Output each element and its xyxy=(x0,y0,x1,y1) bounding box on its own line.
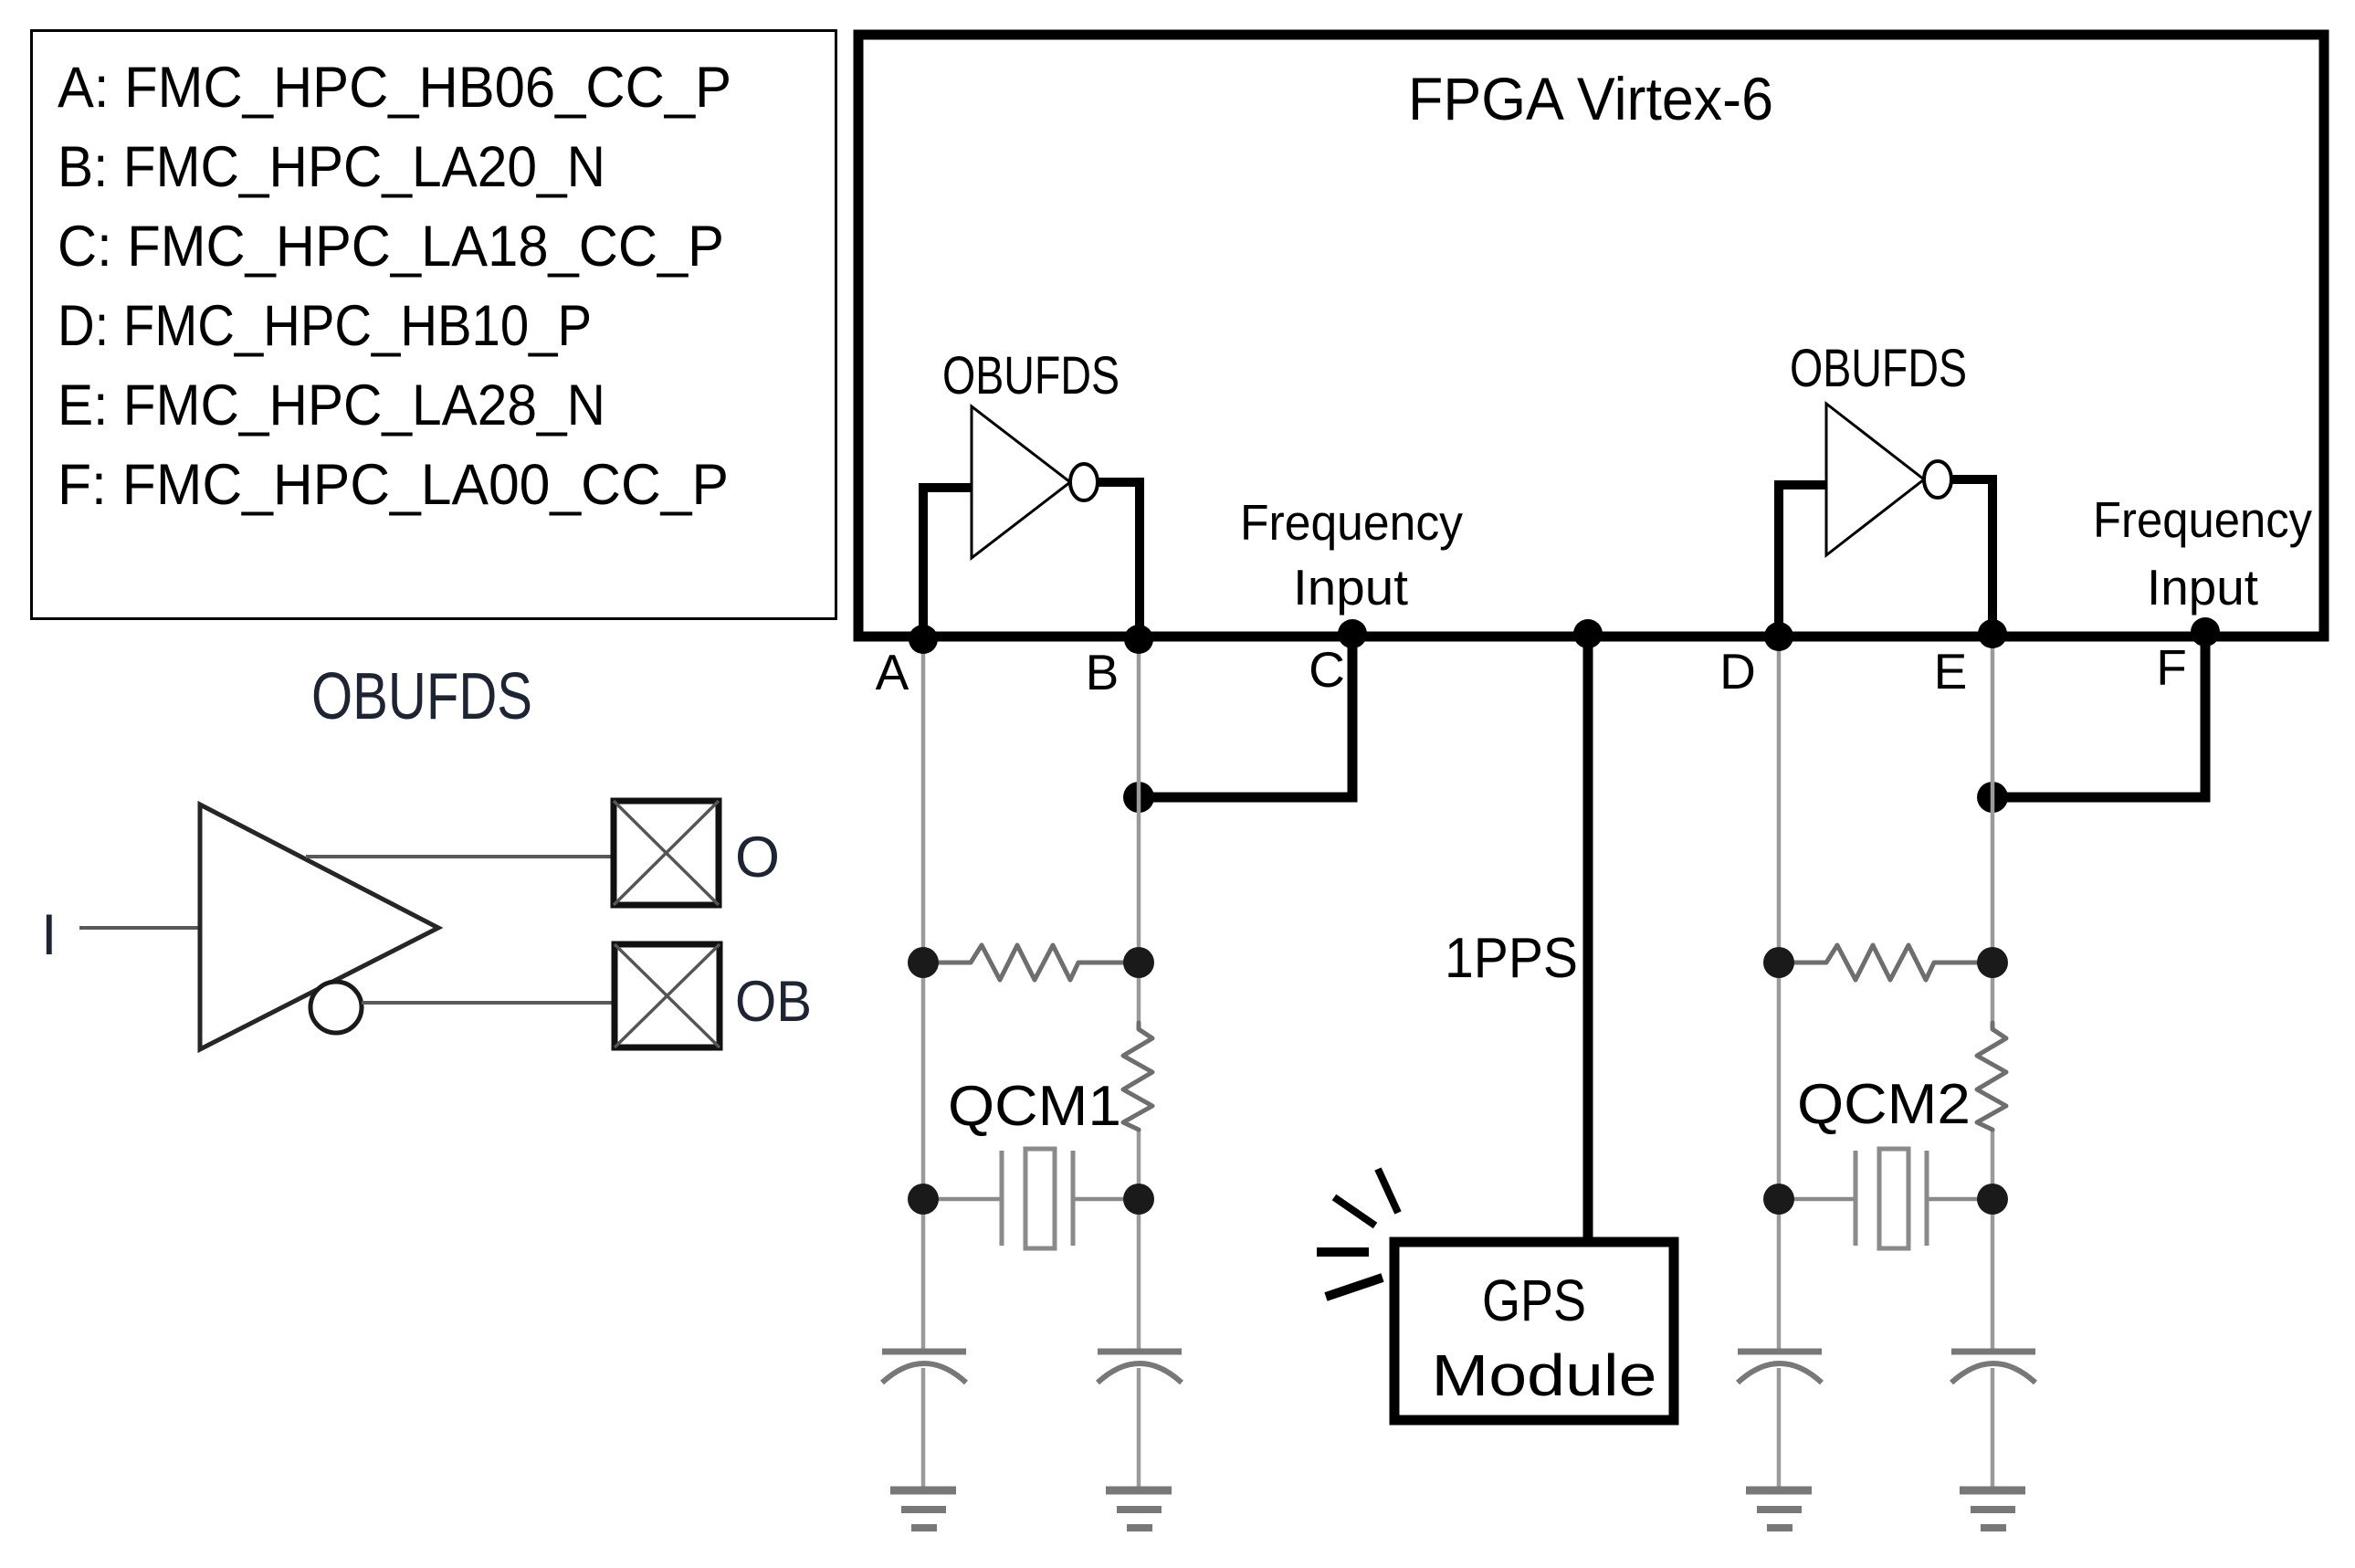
ground (wire A) xyxy=(890,1490,956,1528)
GPS Module box U4 xyxy=(1394,1242,1674,1420)
svg-text:A: FMC_HPC_HB06_CC_P: A: FMC_HPC_HB06_CC_P xyxy=(58,56,731,120)
pad box OB xyxy=(615,944,720,1047)
svg-text:I: I xyxy=(41,903,58,967)
junction dot resistor R1 right xyxy=(1123,947,1154,978)
resistor R4 (vertical, QCM2) xyxy=(1977,1023,2006,1130)
wire B vertical (lower) xyxy=(1137,1368,1141,1490)
node B xyxy=(1124,625,1153,654)
svg-text:FPGA Virtex-6: FPGA Virtex-6 xyxy=(1408,65,1773,132)
legend box (signal name table) xyxy=(32,31,836,619)
spark mark 1 (steep) xyxy=(1378,1169,1398,1213)
junction dot on wire B at jog xyxy=(1123,782,1154,813)
svg-text:F: FMC_HPC_LA00_CC_P: F: FMC_HPC_LA00_CC_P xyxy=(58,453,729,517)
svg-text:Input: Input xyxy=(1293,559,1408,616)
svg-text:C: C xyxy=(1309,641,1345,698)
node E xyxy=(1978,619,2007,648)
junction dot resistor R3 right xyxy=(1977,947,2008,978)
node A xyxy=(909,625,938,654)
node D xyxy=(1764,622,1793,651)
wire O output xyxy=(306,855,614,858)
ground (wire E) xyxy=(1960,1490,2025,1528)
junction dot crystal X1 left xyxy=(908,1184,939,1215)
svg-text:F: F xyxy=(2156,639,2187,696)
junction dot crystal X2 right xyxy=(1977,1184,2008,1215)
junction dot crystal X2 left xyxy=(1763,1184,1794,1215)
resistor R2 (vertical, QCM1) xyxy=(1123,1023,1152,1130)
spark mark 2 (diagonal) xyxy=(1334,1197,1375,1226)
wire E vertical (mid) xyxy=(1991,1129,1995,1349)
svg-text:O: O xyxy=(735,826,780,889)
svg-text:Frequency: Frequency xyxy=(2093,491,2312,548)
crystal X2 (QCM2) xyxy=(1779,1149,1992,1248)
wire D vertical (upper) xyxy=(1777,639,1782,1349)
capacitor C2 (on wire B) xyxy=(1098,1352,1182,1383)
op-amp triangle OBUFDS legend xyxy=(200,805,438,1049)
svg-text:D: D xyxy=(1719,643,1756,700)
resistor R1 (horizontal, QCM1) xyxy=(923,945,1139,980)
svg-text:OB: OB xyxy=(735,970,812,1034)
FPGA Virtex-6 box U1 xyxy=(858,35,2324,637)
wire OB output xyxy=(362,1001,615,1005)
junction dot on wire E at jog xyxy=(1977,782,2008,813)
inversion bubble U3 xyxy=(1924,461,1951,498)
op-amp triangle OBUFDS U3 xyxy=(1826,404,1924,555)
wire OBUFDS U3 output to node E xyxy=(1951,479,1992,639)
svg-text:D: FMC_HPC_HB10_P: D: FMC_HPC_HB10_P xyxy=(58,294,592,358)
spark mark 3 (horizontal) xyxy=(1317,1247,1369,1257)
svg-text:QCM2: QCM2 xyxy=(1797,1073,1971,1136)
inversion bubble U2 xyxy=(1070,464,1098,500)
wire node A to OBUFDS U2 input xyxy=(923,488,972,639)
wire B vertical (upper) xyxy=(1137,639,1141,1024)
wire A vertical (lower) xyxy=(921,1368,926,1490)
junction dot crystal X1 right xyxy=(1123,1184,1154,1215)
ground (wire B) xyxy=(1106,1490,1172,1528)
wire node D to OBUFDS U3 input xyxy=(1779,485,1827,639)
capacitor C3 (on wire D) xyxy=(1738,1352,1822,1383)
wire OBUFDS U2 output to node B xyxy=(1098,482,1140,639)
wire A vertical (upper) xyxy=(921,639,926,1349)
svg-text:OBUFDS: OBUFDS xyxy=(311,660,532,733)
svg-text:OBUFDS: OBUFDS xyxy=(942,346,1120,405)
svg-text:E: E xyxy=(1934,643,1968,700)
svg-text:B: B xyxy=(1086,644,1120,700)
resistor R3 (horizontal, QCM2) xyxy=(1779,945,1992,980)
svg-text:QCM1: QCM1 xyxy=(948,1075,1121,1138)
wire node F jog down-left to wire E xyxy=(1992,637,2205,797)
svg-text:1PPS: 1PPS xyxy=(1445,927,1578,990)
input wire I xyxy=(79,926,200,930)
ground (wire D) xyxy=(1746,1490,1812,1528)
wire D vertical (lower) xyxy=(1777,1368,1782,1490)
inversion bubble legend xyxy=(310,982,362,1033)
junction dot resistor R3 left xyxy=(1763,947,1794,978)
svg-text:Frequency: Frequency xyxy=(1240,494,1463,551)
wire E vertical (upper) xyxy=(1991,639,1995,1024)
pad box O xyxy=(614,801,719,905)
node F xyxy=(2191,617,2220,647)
1PPS wire from FPGA to GPS module xyxy=(1583,637,1593,1242)
wire E vertical (lower) xyxy=(1991,1368,1995,1490)
svg-text:GPS: GPS xyxy=(1482,1268,1586,1333)
svg-text:OBUFDS: OBUFDS xyxy=(1790,339,1967,398)
capacitor C1 (on wire A) xyxy=(882,1352,966,1383)
svg-text:C: FMC_HPC_LA18_CC_P: C: FMC_HPC_LA18_CC_P xyxy=(58,215,724,279)
wire B vertical (mid) xyxy=(1137,1129,1141,1349)
node C xyxy=(1338,619,1367,648)
svg-text:Input: Input xyxy=(2147,559,2258,616)
wire node C jog down-left to wire B xyxy=(1139,637,1352,797)
crystal X1 (QCM1) xyxy=(923,1149,1139,1248)
node 1PPS junction xyxy=(1573,619,1603,648)
capacitor C4 (on wire E) xyxy=(1951,1352,2035,1383)
junction dot resistor R1 left xyxy=(908,947,939,978)
svg-text:A: A xyxy=(876,644,909,700)
spark mark 4 (lower diagonal) xyxy=(1326,1278,1383,1297)
svg-text:E: FMC_HPC_LA28_N: E: FMC_HPC_LA28_N xyxy=(58,374,605,437)
op-amp triangle OBUFDS U2 xyxy=(972,406,1070,558)
svg-text:B: FMC_HPC_LA20_N: B: FMC_HPC_LA20_N xyxy=(58,135,605,199)
svg-text:Module: Module xyxy=(1432,1342,1657,1408)
